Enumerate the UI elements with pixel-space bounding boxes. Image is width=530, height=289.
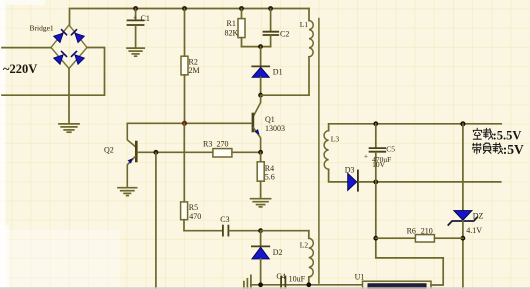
ground below Q2 [118,188,137,196]
svg-text:270: 270 [217,139,229,148]
char fu (load-bearing) [483,143,491,154]
junction C5 top [373,121,378,126]
bridge diode upper-left [54,30,67,43]
diode D3 [345,165,501,190]
svg-text:L1: L1 [300,20,309,29]
wire bottom return rail [251,284,363,286]
junction Q1 emitter node [258,150,263,155]
wire C3 node to L2 top [261,230,309,232]
svg-text:C4: C4 [276,272,285,281]
junction D1 top [258,44,263,49]
wire C5 bottom down to U1 loop [376,182,443,285]
junction base-line left node [154,150,159,155]
wire secondary top rail [329,124,502,131]
junction C3 right / D2 top [258,228,263,233]
junction C5 bottom [373,180,378,185]
svg-text:Q1: Q1 [265,115,275,124]
capacitor C3 [220,215,260,236]
char dai (with) [473,143,481,154]
junction L2 bottom node [306,282,311,287]
resistor R3 270 [203,139,232,157]
zener diode DZ 4.1V [448,124,483,289]
ground below bridge [59,124,79,132]
wire top rail [70,9,310,26]
junction R1 top [239,6,244,11]
ground below C1 [127,48,144,56]
AC input ~220V [2,48,105,96]
bridge diode lower-right [72,52,85,65]
wire R2 junction down to R5 [183,123,185,202]
ground below R4 [251,199,271,207]
svg-text:+: + [364,153,368,161]
junction C1 top [133,6,138,11]
svg-text:D3: D3 [345,165,355,174]
ground sideways at bottom-left of output loop [244,275,251,289]
svg-text:Q2: Q2 [104,145,114,154]
capacitor C1 [128,9,150,48]
char zai (load) [483,128,493,139]
wire Q1 base rail (Q2 collector / R2 bottom to Q1 base) [127,122,251,124]
svg-text:R3: R3 [203,139,212,148]
junction Q1 collector node [258,93,263,98]
wire bridge bottom to ground [68,69,70,124]
bridge rectifier Bridge1 [30,24,88,69]
wire Q2 base to R3 to Q1 emitter node [138,151,261,153]
svg-text:R6: R6 [407,227,416,236]
capacitor C5 470uF 10V [364,124,395,182]
junction R2 bottom (red) [182,121,187,126]
svg-text:Bridge1: Bridge1 [30,24,54,33]
svg-text:C1: C1 [141,14,150,23]
junction C2 top [268,6,273,11]
junction output plus node [460,121,465,126]
transformer core line [318,19,320,284]
svg-text:R1: R1 [227,19,236,28]
svg-text:C2: C2 [280,29,289,38]
char zai second (reuse) [493,143,503,154]
diode D2 [252,231,283,285]
svg-text:C3: C3 [220,215,229,224]
optocoupler U1 [355,272,431,289]
inductor L2 [300,231,314,285]
svg-text:13003: 13003 [265,124,285,133]
bridge diode lower-left [54,52,67,65]
transistor Q2 [104,123,136,187]
svg-text:+: + [133,13,137,21]
svg-text:D1: D1 [273,68,283,77]
svg-text:L2: L2 [300,240,309,249]
wire feedback vertical down from base-line [155,152,157,289]
junction R2 top [182,6,187,11]
svg-text:4.1V: 4.1V [466,226,482,235]
svg-text:~220V: ~220V [3,62,37,76]
diode D1 [252,47,282,96]
capacitor C2 [264,9,290,47]
resistor R5 470 [181,202,222,231]
wire collector node to L1 bottom [261,94,309,96]
junction R6 left node [373,236,378,241]
svg-text:C5: C5 [386,144,395,153]
svg-text:DZ: DZ [473,211,484,220]
svg-text:10uF: 10uF [289,275,306,284]
resistor R4 5.6 [257,152,275,198]
svg-text:210: 210 [421,227,433,236]
svg-text:L3: L3 [331,134,340,143]
wire R1 bottom to C2 bottom [242,46,271,48]
svg-text:10V: 10V [372,160,386,169]
inductor L1 [300,9,313,96]
svg-text:470: 470 [189,212,201,221]
resistor R2 2M [181,9,200,124]
bridge diode upper-right [72,30,85,43]
svg-text:82K: 82K [225,28,239,37]
svg-text:5.6: 5.6 [265,173,275,182]
svg-text:U1: U1 [355,272,365,281]
svg-text:2M: 2M [189,66,200,75]
annotation output voltages [473,128,524,157]
resistor R6 210 [376,227,463,242]
transistor Q1 13003 [253,95,285,152]
photo edge artifact: bottom scan strip [0,287,530,289]
svg-text::5.5V: :5.5V [493,129,522,143]
svg-text::5V: :5V [503,142,524,157]
char kong (empty-load) [473,128,482,139]
capacitor C4 10uF [276,272,305,289]
svg-text:D2: D2 [273,248,283,257]
resistor R1 82K [225,9,246,47]
junction R6 right node [461,236,466,241]
junction D2 anode node [258,282,263,287]
inductor L3 [324,131,348,182]
svg-text:R5: R5 [189,203,198,212]
